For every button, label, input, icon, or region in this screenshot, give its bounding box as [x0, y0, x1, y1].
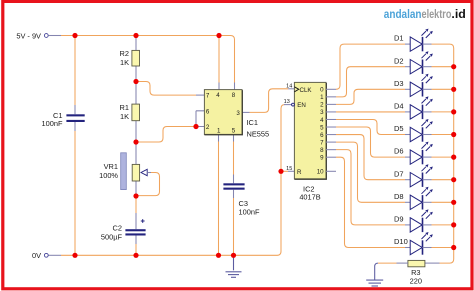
junction node rail D7 [451, 177, 456, 182]
svg-text:elektro: elektro [422, 7, 452, 21]
LED D5 [394, 119, 454, 142]
resistor R2 [120, 49, 140, 67]
IC2 4017B [284, 82, 327, 201]
junction node VR1-C2 [133, 193, 138, 198]
wire out0 to D1 [336, 44, 405, 89]
svg-text:D4: D4 [394, 102, 404, 111]
resistor R3 [408, 260, 425, 285]
svg-text:D2: D2 [394, 56, 404, 65]
wire out6 to D7 [336, 135, 405, 180]
junction node R2-R1 [133, 79, 138, 84]
wire out7 to D8 [336, 142, 405, 202]
wire LED cathode rail [425, 44, 454, 263]
site logo [384, 7, 466, 21]
wire pin5 to C3 [233, 134, 235, 255]
ground under C3 [226, 255, 242, 277]
wire pin7 [136, 82, 204, 96]
svg-text:D10: D10 [394, 237, 408, 246]
junction node 0V at C3 ground [231, 253, 236, 258]
junction node top rail at R2 [133, 33, 138, 38]
LED D7 [394, 164, 454, 187]
junction node rail D10 [451, 245, 456, 250]
junction node rail D9 [451, 222, 456, 227]
wire 5V rail [48, 36, 234, 83]
wire out5 to D6 [336, 127, 405, 157]
wire divider chain [135, 36, 137, 197]
svg-text:andalan: andalan [384, 7, 422, 21]
ground under R3 [366, 280, 383, 286]
capacitor C2 [101, 219, 146, 241]
svg-text:D3: D3 [394, 79, 404, 88]
wire out3 to D4 [336, 111, 405, 113]
svg-text:D9: D9 [394, 215, 404, 224]
wire out2 to D3 [336, 89, 405, 104]
junction node rail D3 [451, 87, 456, 92]
junction node EN-R [278, 169, 283, 174]
svg-text:D1: D1 [394, 34, 404, 43]
junction node R1-VR1 [133, 139, 138, 144]
capacitor C1 [42, 111, 85, 128]
svg-text:D6: D6 [394, 147, 404, 156]
wire 0V rail [48, 105, 293, 256]
LED D1 [394, 29, 433, 52]
svg-text:D7: D7 [394, 169, 404, 178]
junction node top rail at pin4 [216, 33, 221, 38]
wire out8 to D9 [336, 150, 405, 225]
junction node rail D5 [451, 132, 456, 137]
op-amp timer IC1 NE555 [204, 90, 269, 139]
resistor R1 [120, 103, 140, 121]
svg-text:D5: D5 [394, 124, 404, 133]
LED D6 [394, 142, 454, 165]
potentiometer VR1 [99, 153, 147, 190]
wire VR1 to C2 [135, 196, 137, 255]
LED D9 [394, 209, 454, 232]
svg-text:.id: .id [451, 7, 465, 21]
svg-text:D8: D8 [394, 192, 404, 201]
junction node 0V at C2 [133, 253, 138, 258]
IC2 output pin stubs [326, 89, 336, 171]
junction node rail D2 [451, 64, 456, 69]
wire VR1 wiper [136, 173, 160, 196]
junction node rail D4 [451, 109, 456, 114]
LED D3 [394, 74, 454, 97]
wire pin1 to 0V [218, 134, 220, 255]
junction node rail D6 [451, 155, 456, 160]
wire pins 6 and 2 [136, 111, 204, 142]
junction node pin2-pin6 [193, 124, 198, 129]
wire pin4 [219, 36, 235, 90]
capacitor C3 [223, 183, 260, 216]
junction node rail D8 [451, 200, 456, 205]
junction node top rail at C1 [72, 33, 77, 38]
junction node 0V at C1 [72, 253, 77, 258]
LED D8 [394, 187, 454, 210]
terminal 0V [32, 251, 48, 260]
LED D2 [394, 51, 454, 74]
LED D10 [394, 232, 454, 255]
junction node 0V at pin1 [216, 253, 221, 258]
wire out9 to D10 [336, 157, 405, 247]
wire out1 to D2 [336, 67, 405, 97]
wire out4 to D5 [336, 119, 405, 134]
wire C1 branch [74, 36, 76, 256]
terminal 5V-9V [16, 31, 48, 40]
wire pin15 R [281, 170, 294, 172]
wire pin3 to CLK [242, 89, 294, 113]
LED D4 [394, 96, 454, 119]
wire R3 to ground [375, 263, 408, 280]
